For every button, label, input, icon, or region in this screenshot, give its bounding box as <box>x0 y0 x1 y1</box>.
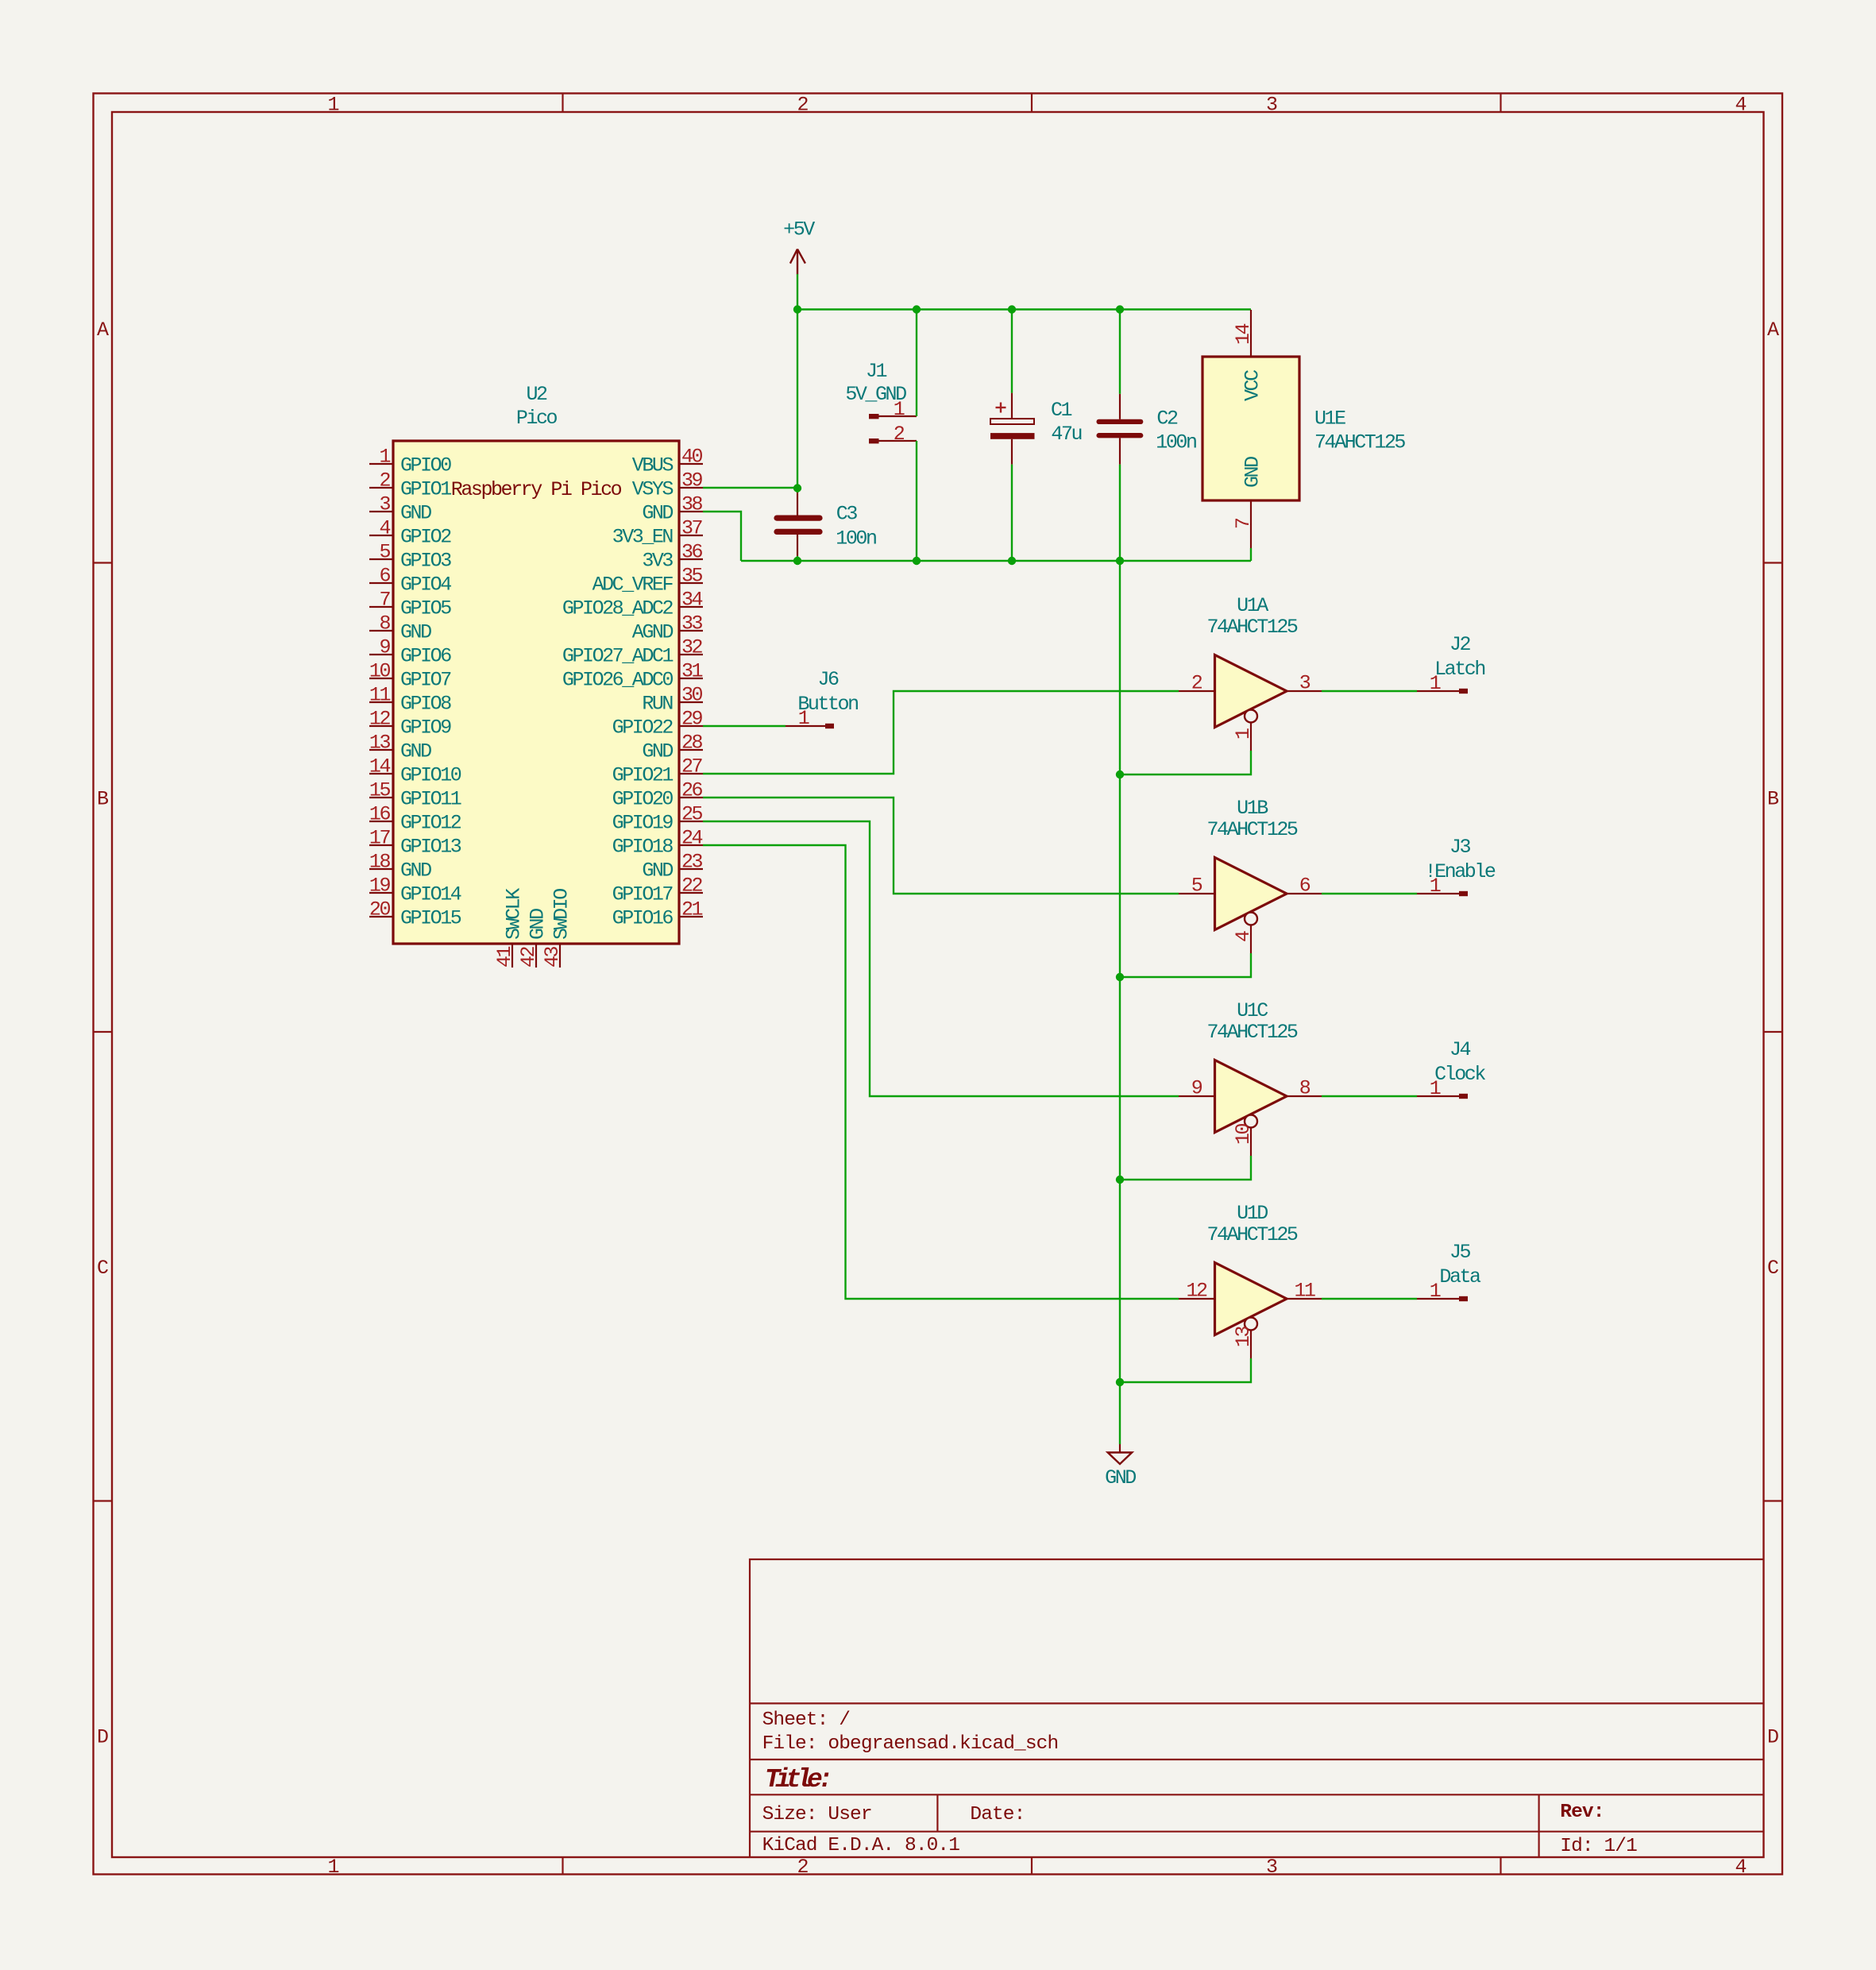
svg-text:26: 26 <box>681 779 703 802</box>
svg-text:1: 1 <box>1232 728 1255 740</box>
U2 pin 19 GPIO14 <box>369 892 393 894</box>
node C1 top rail junction <box>1008 305 1016 313</box>
svg-text:AGND: AGND <box>632 621 674 644</box>
svg-text:4: 4 <box>1232 931 1255 942</box>
node C2 top rail junction <box>1116 305 1124 313</box>
svg-text:10: 10 <box>369 660 391 683</box>
svg-text:1: 1 <box>327 94 339 117</box>
svg-text:GPIO10: GPIO10 <box>400 764 461 787</box>
svg-text:VCC: VCC <box>1241 370 1264 401</box>
wire U1A output to J2 <box>1322 690 1417 692</box>
svg-text:5: 5 <box>1191 875 1202 898</box>
svg-text:GPIO12: GPIO12 <box>400 812 461 835</box>
svg-text:30: 30 <box>681 684 703 707</box>
svg-text:U1D: U1D <box>1237 1202 1268 1225</box>
U2 pin 24 GPIO18 <box>679 844 703 846</box>
svg-text:J2: J2 <box>1449 633 1471 656</box>
svg-text:SWCLK: SWCLK <box>503 888 526 940</box>
U1A output pin 3 <box>1287 690 1322 692</box>
ic U1E 74AHCT125 power unit body <box>1202 357 1299 500</box>
U2 pin 3 GND <box>369 511 393 512</box>
U2 pin 2 GPIO1 <box>369 487 393 489</box>
wire U1D output to J5 <box>1322 1298 1417 1300</box>
svg-text:A: A <box>97 319 109 342</box>
svg-text:3V3: 3V3 <box>642 550 673 573</box>
node J1 bottom rail junction <box>913 557 921 565</box>
svg-text:SWDIO: SWDIO <box>550 889 573 940</box>
U2 pin 39 VSYS <box>679 487 703 489</box>
wire U1B enable to GND column <box>1120 953 1251 977</box>
connector J3 !Enable <box>1417 893 1459 894</box>
wire +5V rail to C2 <box>1119 310 1121 394</box>
svg-text:74AHCT125: 74AHCT125 <box>1207 1223 1298 1246</box>
svg-text:B: B <box>1767 788 1779 811</box>
wire GPIO20 pin26 to U1B input <box>703 798 1179 894</box>
U2 pin 12 GPIO9 <box>369 725 393 727</box>
svg-text:47u: 47u <box>1051 423 1081 446</box>
svg-text:GPIO4: GPIO4 <box>400 574 451 597</box>
svg-text:!Enable: !Enable <box>1425 860 1496 883</box>
svg-text:Id: 1/1: Id: 1/1 <box>1560 1836 1637 1857</box>
U1C input pin 9 <box>1179 1095 1215 1097</box>
svg-text:C2: C2 <box>1156 408 1178 431</box>
svg-text:12: 12 <box>369 708 391 731</box>
svg-text:6: 6 <box>1299 875 1310 898</box>
svg-text:Clock: Clock <box>1434 1063 1485 1086</box>
U2 pin 7 GPIO5 <box>369 606 393 608</box>
svg-text:GPIO9: GPIO9 <box>400 717 451 740</box>
svg-text:GND: GND <box>1241 457 1264 488</box>
svg-text:KiCad E.D.A. 8.0.1: KiCad E.D.A. 8.0.1 <box>762 1835 960 1856</box>
power symbol +5V <box>797 249 798 275</box>
wire +5V stem <box>797 274 798 310</box>
svg-text:7: 7 <box>1232 518 1255 529</box>
svg-text:GPIO22: GPIO22 <box>612 717 674 740</box>
svg-text:U2: U2 <box>526 383 547 406</box>
svg-text:24: 24 <box>681 827 703 850</box>
svg-text:3: 3 <box>1299 672 1310 695</box>
node +5V rail junction at C3 column <box>793 305 801 313</box>
svg-text:GPIO18: GPIO18 <box>612 836 674 859</box>
svg-text:GPIO15: GPIO15 <box>400 907 461 930</box>
svg-text:J3: J3 <box>1449 836 1471 859</box>
connector J1 5V_GND <box>878 415 917 417</box>
svg-text:2: 2 <box>797 1856 809 1879</box>
svg-text:37: 37 <box>681 517 703 540</box>
ground symbol GND <box>1119 1444 1121 1453</box>
wire GND pin38 to bottom rail <box>703 512 741 561</box>
svg-text:GPIO8: GPIO8 <box>400 693 451 716</box>
svg-text:J4: J4 <box>1449 1038 1471 1061</box>
buffer U1A 74AHCT125 triangle <box>1215 655 1287 728</box>
svg-text:D: D <box>1767 1726 1779 1749</box>
U2 pin 40 VBUS <box>679 463 703 465</box>
U1E pin 7 GND <box>1250 500 1252 548</box>
wire GPIO22 pin29 to J6 <box>703 725 786 727</box>
svg-text:GPIO3: GPIO3 <box>400 550 451 573</box>
capacitor C2 100n <box>1119 394 1121 419</box>
svg-text:1: 1 <box>327 1856 339 1879</box>
svg-text:7: 7 <box>379 589 390 612</box>
svg-text:74AHCT125: 74AHCT125 <box>1314 431 1405 454</box>
svg-text:2: 2 <box>894 423 905 446</box>
svg-text:34: 34 <box>681 589 703 612</box>
svg-text:GPIO19: GPIO19 <box>612 812 674 835</box>
U2 pin 8 GND <box>369 630 393 632</box>
node VSYS junction <box>793 484 801 492</box>
svg-text:18: 18 <box>369 851 391 874</box>
svg-text:19: 19 <box>369 875 391 898</box>
svg-text:C1: C1 <box>1051 399 1072 422</box>
U1A input pin 2 <box>1179 690 1215 692</box>
U1B input pin 5 <box>1179 893 1215 894</box>
svg-text:RUN: RUN <box>642 693 673 716</box>
U1E pin 14 VCC <box>1250 310 1252 357</box>
U2 pin 22 GPIO17 <box>679 892 703 894</box>
svg-text:J1: J1 <box>866 360 887 383</box>
svg-text:21: 21 <box>681 898 703 921</box>
U2 pin 35 ADC_VREF <box>679 582 703 584</box>
node U1A enable junction <box>1116 771 1124 778</box>
svg-text:4: 4 <box>379 517 390 540</box>
svg-text:3: 3 <box>379 493 390 516</box>
svg-text:Title:: Title: <box>765 1765 829 1794</box>
U2 pin 18 GND <box>369 868 393 870</box>
frame row ticks left <box>94 562 113 563</box>
svg-text:Data: Data <box>1439 1265 1481 1288</box>
wire GPIO18 pin24 to U1D input <box>703 845 1179 1299</box>
U2 pin 37 3V3_EN <box>679 535 703 536</box>
node J1 top rail junction <box>913 305 921 313</box>
svg-text:GND: GND <box>642 859 673 883</box>
U2 pin 14 GPIO10 <box>369 773 393 774</box>
wire VSYS pin39 to +5V rail <box>703 487 797 489</box>
svg-text:2: 2 <box>379 469 390 492</box>
buffer U1C 74AHCT125 triangle <box>1215 1060 1287 1133</box>
svg-text:File: obegraensad.kicad_sch: File: obegraensad.kicad_sch <box>762 1733 1059 1755</box>
svg-text:12: 12 <box>1186 1280 1207 1303</box>
svg-text:Date:: Date: <box>970 1804 1025 1825</box>
svg-text:42: 42 <box>517 946 540 968</box>
U1D enable pin 13 with inversion bubble <box>1245 1318 1257 1331</box>
U2 pin 34 GPIO28_ADC2 <box>679 606 703 608</box>
node U1C enable junction <box>1116 1176 1124 1184</box>
node U1B enable junction <box>1116 973 1124 981</box>
svg-text:C: C <box>1767 1257 1779 1280</box>
svg-text:6: 6 <box>379 565 390 588</box>
svg-text:39: 39 <box>681 469 703 492</box>
wire U1D enable to GND column <box>1120 1358 1251 1382</box>
svg-text:41: 41 <box>493 946 516 968</box>
U2 pin 29 GPIO22 <box>679 725 703 727</box>
connector J2 Latch <box>1417 690 1459 692</box>
U2 pin 30 RUN <box>679 701 703 703</box>
U2 pin 20 GPIO15 <box>369 916 393 917</box>
svg-text:14: 14 <box>1232 323 1255 345</box>
U2 pin 31 GPIO26_ADC0 <box>679 678 703 679</box>
svg-text:GND: GND <box>1105 1466 1136 1489</box>
svg-text:D: D <box>97 1726 109 1749</box>
buffer U1B 74AHCT125 triangle <box>1215 858 1287 930</box>
wire GPIO19 pin25 to U1C input <box>703 821 1179 1096</box>
U2 pin 38 GND <box>679 511 703 512</box>
svg-text:C: C <box>97 1257 109 1280</box>
svg-text:3: 3 <box>1266 94 1278 117</box>
svg-text:32: 32 <box>681 636 703 659</box>
capacitor C1 47u polarized <box>1011 393 1013 419</box>
svg-text:GPIO28_ADC2: GPIO28_ADC2 <box>562 597 674 620</box>
sheet border inner frame <box>112 112 1764 1857</box>
U2 pin 43 SWDIO <box>559 944 561 968</box>
U1D output pin 11 <box>1287 1298 1322 1300</box>
svg-text:GPIO5: GPIO5 <box>400 597 451 620</box>
U2 pin 41 SWCLK <box>511 944 513 968</box>
svg-text:GPIO21: GPIO21 <box>612 764 674 787</box>
svg-text:J5: J5 <box>1449 1241 1471 1264</box>
svg-text:74AHCT125: 74AHCT125 <box>1207 818 1298 841</box>
U2 pin 5 GPIO3 <box>369 558 393 560</box>
svg-text:GND: GND <box>642 502 673 525</box>
wire U1B output to J3 <box>1322 893 1417 894</box>
wire GND bottom rail <box>741 560 1251 562</box>
svg-text:GND: GND <box>400 621 431 644</box>
U2 pin 25 GPIO19 <box>679 821 703 822</box>
svg-text:GPIO14: GPIO14 <box>400 883 461 906</box>
svg-text:5V_GND: 5V_GND <box>845 383 906 406</box>
svg-text:GND: GND <box>527 909 550 940</box>
svg-text:U1C: U1C <box>1237 999 1268 1022</box>
U2 pin 36 3V3 <box>679 558 703 560</box>
U2 pin 26 GPIO20 <box>679 797 703 798</box>
svg-text:22: 22 <box>681 875 703 898</box>
U1A enable pin 1 with inversion bubble <box>1245 710 1257 723</box>
svg-text:GPIO0: GPIO0 <box>400 454 451 477</box>
svg-text:GPIO16: GPIO16 <box>612 907 674 930</box>
svg-text:Sheet: /: Sheet: / <box>762 1709 851 1731</box>
frame column ticks bottom <box>562 1857 563 1875</box>
U1D input pin 12 <box>1179 1298 1215 1300</box>
wire U1C output to J4 <box>1322 1095 1417 1097</box>
svg-text:3V3_EN: 3V3_EN <box>612 526 674 549</box>
svg-text:J6: J6 <box>817 668 839 691</box>
U2 pin 42 GND <box>535 944 537 968</box>
U1C enable pin 10 with inversion bubble <box>1245 1115 1257 1128</box>
U2 pin 15 GPIO11 <box>369 797 393 798</box>
svg-text:11: 11 <box>1294 1280 1315 1303</box>
svg-text:B: B <box>97 788 109 811</box>
svg-text:U1A: U1A <box>1237 594 1268 617</box>
U2 pin 6 GPIO4 <box>369 582 393 584</box>
svg-text:8: 8 <box>379 612 390 635</box>
buffer U1D 74AHCT125 triangle <box>1215 1263 1287 1335</box>
wire U1A enable to GND column <box>1120 751 1251 774</box>
svg-text:13: 13 <box>369 732 391 755</box>
capacitor C3 100n <box>797 492 798 516</box>
U2 pin 33 AGND <box>679 630 703 632</box>
svg-text:1: 1 <box>379 446 390 469</box>
svg-text:ADC_VREF: ADC_VREF <box>593 574 674 597</box>
U2 pin 1 GPIO0 <box>369 463 393 465</box>
svg-text:U1B: U1B <box>1237 797 1268 820</box>
wire J1 pin2 to GND rail <box>916 441 917 561</box>
svg-text:GND: GND <box>400 859 431 883</box>
svg-text:11: 11 <box>369 684 391 707</box>
svg-text:Pico: Pico <box>516 407 558 430</box>
svg-text:5: 5 <box>379 541 390 564</box>
svg-text:VBUS: VBUS <box>632 454 674 477</box>
wire U1E pin7 to GND rail <box>1250 548 1252 561</box>
U2 pin 10 GPIO7 <box>369 678 393 679</box>
svg-text:GPIO26_ADC0: GPIO26_ADC0 <box>562 669 674 692</box>
svg-text:35: 35 <box>681 565 703 588</box>
svg-text:43: 43 <box>541 946 564 968</box>
svg-text:C3: C3 <box>836 502 858 525</box>
C1 plus sign <box>996 407 1006 408</box>
svg-text:17: 17 <box>369 827 391 850</box>
svg-text:27: 27 <box>681 755 703 778</box>
svg-text:Latch: Latch <box>1434 658 1484 681</box>
svg-text:4: 4 <box>1735 94 1747 117</box>
svg-text:38: 38 <box>681 493 703 516</box>
svg-text:2: 2 <box>797 94 809 117</box>
svg-text:A: A <box>1767 319 1779 342</box>
svg-text:23: 23 <box>681 851 703 874</box>
connector J5 Data <box>1417 1298 1459 1300</box>
svg-text:U1E: U1E <box>1314 408 1345 431</box>
U2 pin 16 GPIO12 <box>369 821 393 822</box>
U2 pin 21 GPIO16 <box>679 916 703 917</box>
svg-text:15: 15 <box>369 779 391 802</box>
node C1 bottom rail junction <box>1008 557 1016 565</box>
wire C1 to GND rail <box>1011 465 1013 561</box>
svg-text:VSYS: VSYS <box>632 478 674 501</box>
ic U2 Raspberry Pi Pico body <box>393 441 679 944</box>
svg-text:13: 13 <box>1232 1326 1255 1347</box>
U2 pin 28 GND <box>679 749 703 751</box>
svg-text:Button: Button <box>797 693 858 716</box>
svg-text:100n: 100n <box>1156 431 1196 454</box>
svg-text:GPIO6: GPIO6 <box>400 645 451 668</box>
svg-text:3: 3 <box>1266 1856 1278 1879</box>
svg-text:8: 8 <box>1299 1077 1310 1100</box>
U2 pin 9 GPIO6 <box>369 654 393 655</box>
frame column ticks top <box>562 94 563 113</box>
wire +5V rail to C1 <box>1011 310 1013 393</box>
svg-text:Raspberry Pi Pico: Raspberry Pi Pico <box>451 478 622 501</box>
title block outline <box>750 1559 1764 1857</box>
U1B enable pin 4 with inversion bubble <box>1245 913 1257 925</box>
svg-text:20: 20 <box>369 898 391 921</box>
svg-text:16: 16 <box>369 803 391 826</box>
U1B output pin 6 <box>1287 893 1322 894</box>
svg-text:+5V: +5V <box>783 218 815 241</box>
wire GPIO21 pin27 to U1A input <box>703 691 1179 774</box>
wire C2 to GND rail <box>1119 465 1121 561</box>
title block row lines <box>750 1702 1764 1704</box>
wire U1C enable to GND column <box>1120 1156 1251 1180</box>
connector J6 Button <box>786 725 825 727</box>
svg-text:GND: GND <box>400 740 431 763</box>
svg-text:Size: User: Size: User <box>762 1804 872 1825</box>
U2 pin 32 GPIO27_ADC1 <box>679 654 703 655</box>
svg-text:GND: GND <box>642 740 673 763</box>
svg-text:GPIO1: GPIO1 <box>400 478 451 501</box>
U1C output pin 8 <box>1287 1095 1322 1097</box>
svg-text:36: 36 <box>681 541 703 564</box>
svg-text:GPIO27_ADC1: GPIO27_ADC1 <box>562 645 674 668</box>
svg-text:14: 14 <box>369 755 391 778</box>
wire GND main vertical <box>1119 561 1121 1382</box>
svg-text:10: 10 <box>1232 1123 1255 1145</box>
U2 pin 23 GND <box>679 868 703 870</box>
wire C3 to bottom rail <box>797 556 798 561</box>
svg-text:GND: GND <box>400 502 431 525</box>
svg-text:Rev:: Rev: <box>1560 1802 1604 1823</box>
wire +5V top rail <box>797 308 1251 310</box>
svg-text:28: 28 <box>681 732 703 755</box>
svg-text:GPIO7: GPIO7 <box>400 669 451 692</box>
svg-text:31: 31 <box>681 660 703 683</box>
node U1D enable junction <box>1116 1378 1124 1386</box>
svg-text:74AHCT125: 74AHCT125 <box>1207 1021 1298 1044</box>
svg-text:25: 25 <box>681 803 703 826</box>
svg-text:74AHCT125: 74AHCT125 <box>1207 616 1298 639</box>
svg-text:2: 2 <box>1191 672 1202 695</box>
svg-text:GPIO13: GPIO13 <box>400 836 461 859</box>
frame row ticks right <box>1764 562 1783 563</box>
wire +5V vertical to C3 <box>797 310 798 493</box>
svg-text:GPIO2: GPIO2 <box>400 526 451 549</box>
wire +5V rail to J1 pin1 <box>916 310 917 417</box>
U2 pin 11 GPIO8 <box>369 701 393 703</box>
svg-text:GPIO20: GPIO20 <box>612 788 674 811</box>
U2 pin 13 GND <box>369 749 393 751</box>
svg-text:9: 9 <box>379 636 390 659</box>
node C2 bottom rail junction <box>1116 557 1124 565</box>
wire GND vertical to ground symbol <box>1119 1382 1121 1444</box>
node C3 bottom rail junction <box>793 557 801 565</box>
svg-text:9: 9 <box>1191 1077 1202 1100</box>
svg-text:40: 40 <box>681 446 703 469</box>
title block dividers <box>936 1794 938 1831</box>
svg-text:GPIO17: GPIO17 <box>612 883 674 906</box>
U2 pin 17 GPIO13 <box>369 844 393 846</box>
svg-text:4: 4 <box>1735 1856 1747 1879</box>
svg-text:29: 29 <box>681 708 703 731</box>
svg-text:100n: 100n <box>836 527 876 550</box>
svg-text:33: 33 <box>681 612 703 635</box>
svg-text:GPIO11: GPIO11 <box>400 788 461 811</box>
connector J4 Clock <box>1417 1095 1459 1097</box>
U2 pin 4 GPIO2 <box>369 535 393 536</box>
U2 pin 27 GPIO21 <box>679 773 703 774</box>
